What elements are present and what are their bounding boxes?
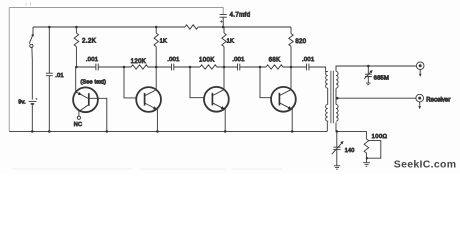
node ground/.01 xyxy=(48,130,51,133)
node ground/Q3 emitter xyxy=(224,130,227,133)
node rail/1K xyxy=(155,26,158,29)
svg-text:.001: .001 xyxy=(167,57,179,63)
resistor R1 2.2K xyxy=(74,27,78,67)
ground symbol (140) xyxy=(334,166,341,169)
wire tap to receiver xyxy=(336,97,416,99)
svg-text:9v.: 9v. xyxy=(18,100,26,106)
transistor Q4 xyxy=(260,67,296,131)
wire bus segment d xyxy=(174,66,200,68)
wire bus segment a xyxy=(76,66,95,68)
capacitor C8 140 variable xyxy=(332,131,344,165)
node ground/Q1 base xyxy=(106,130,109,133)
resistor R8 820 xyxy=(289,27,293,67)
resistor R2 120K xyxy=(131,65,147,69)
wire supply rail right xyxy=(198,26,291,28)
wire top feedback run xyxy=(9,8,223,15)
svg-text:.001: .001 xyxy=(302,57,314,63)
node bus/Q4 base xyxy=(259,66,262,69)
node bus/1K/Q2 collector xyxy=(155,66,158,69)
node rail/2.2K xyxy=(75,26,78,29)
resistor R4 68K xyxy=(266,65,283,69)
resistor R9 100 ohm xyxy=(364,139,381,163)
capacitor C2 .001 xyxy=(172,64,174,71)
node bus/Q3 base xyxy=(189,66,192,69)
svg-text:120K: 120K xyxy=(131,58,147,65)
node transformer tap xyxy=(336,97,339,100)
terminal jack top xyxy=(416,62,424,77)
svg-text:.001: .001 xyxy=(86,57,98,63)
node bus/1K2/Q3 collector xyxy=(223,66,226,69)
resistor R7 1K xyxy=(222,27,226,67)
svg-text:820: 820 xyxy=(295,39,306,45)
wire bus segment g xyxy=(283,65,307,68)
wire bus segment c xyxy=(148,65,172,68)
svg-text:.01: .01 xyxy=(55,73,64,79)
capacitor C7 685M variable xyxy=(364,66,372,85)
svg-text:SeekIC.com: SeekIC.com xyxy=(394,159,457,171)
svg-text:.001: .001 xyxy=(232,57,244,63)
node ground/battery xyxy=(31,130,34,133)
transistor Q1 xyxy=(73,67,107,131)
terminal jack receiver xyxy=(416,94,424,109)
svg-text:NC: NC xyxy=(74,122,82,128)
capacitor C4 .001 xyxy=(307,64,309,71)
svg-text:68K: 68K xyxy=(269,57,281,64)
svg-text:2.2K: 2.2K xyxy=(82,38,97,45)
node bus/820/Q4 collector xyxy=(290,66,293,69)
capacitor C5 4.7mfd xyxy=(220,15,227,27)
switch S1 xyxy=(29,27,34,100)
node transformer bottom/ground xyxy=(336,130,339,133)
transistor Q2 xyxy=(124,67,161,131)
wire top output line xyxy=(368,65,416,67)
node bus/2.2K/Q1 xyxy=(75,66,78,69)
svg-text:100Ω: 100Ω xyxy=(372,134,388,140)
node ground/Q2 emitter xyxy=(156,130,159,133)
node output/685M xyxy=(367,65,370,68)
wire bus segment f xyxy=(240,66,266,68)
transformer T1 xyxy=(326,66,369,131)
capacitor C3 .001 xyxy=(238,64,240,71)
wire bus segment b xyxy=(98,66,131,68)
node ground/Q4 emitter xyxy=(291,130,294,133)
svg-text:Receiver: Receiver xyxy=(426,97,450,103)
battery B1 9v xyxy=(29,98,38,131)
transistor Q3 xyxy=(190,67,229,131)
svg-text:1K: 1K xyxy=(227,39,234,45)
wire supply rail xyxy=(33,26,185,28)
svg-text:1K: 1K xyxy=(160,39,167,45)
svg-text:(See text): (See text) xyxy=(80,79,106,85)
wire bus segment e xyxy=(217,65,238,68)
wire left border (ground return) xyxy=(8,8,10,132)
wire bus segment h to transformer xyxy=(309,67,328,71)
resistor R5 series (unlabeled) xyxy=(185,25,198,29)
ground symbol (100 ohm) xyxy=(363,163,370,167)
node bus/Q2 base xyxy=(123,66,126,69)
capacitor C6 .01 xyxy=(46,27,53,131)
resistor R6 1K xyxy=(154,27,158,67)
capacitor C1 .001 xyxy=(96,64,98,71)
svg-text:100K: 100K xyxy=(199,57,215,64)
resistor R3 100K xyxy=(200,65,216,69)
svg-text:140: 140 xyxy=(345,148,355,154)
artifact faint caption smudge xyxy=(12,168,282,170)
svg-text:4.7mfd: 4.7mfd xyxy=(230,12,251,19)
wire ground rail xyxy=(9,130,327,132)
wire ground rail right xyxy=(337,131,367,139)
node rail/.01 xyxy=(48,26,51,29)
svg-text:685M: 685M xyxy=(374,76,390,82)
artifact ticks top xyxy=(26,2,31,5)
node supply/4.7mfd junction xyxy=(222,26,225,29)
